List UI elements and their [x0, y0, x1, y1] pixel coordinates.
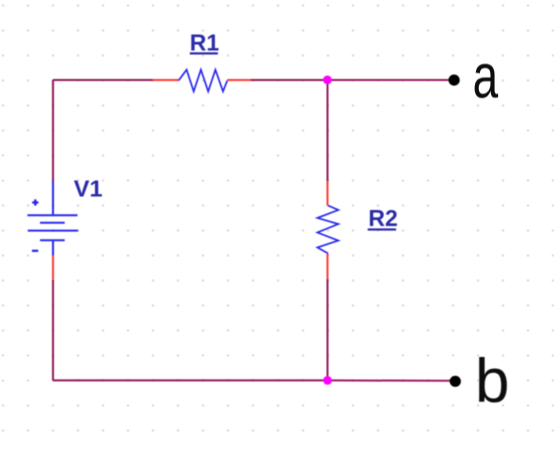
wire R2 bottom feed	[327, 279, 329, 381]
terminal b label	[475, 347, 509, 416]
terminal a dot	[449, 75, 460, 86]
resistor R1	[153, 70, 251, 92]
wire R2 top feed	[327, 80, 329, 181]
junction node b (magenta)	[323, 376, 332, 385]
terminal b dot	[450, 376, 461, 387]
label V1	[74, 175, 103, 201]
junction node a (magenta)	[323, 76, 332, 85]
svg-text:b: b	[475, 347, 509, 416]
terminal a label	[473, 42, 499, 111]
wire junction to terminal a	[328, 79, 454, 81]
wire R1 to node a junction	[250, 79, 327, 81]
wire junction to terminal b	[328, 379, 456, 381]
label R2	[368, 205, 398, 231]
battery V1	[27, 181, 78, 280]
wire bottom rail	[53, 379, 328, 381]
wire left vertical lower (V1 - pin to bottom rail)	[52, 280, 54, 381]
label R1	[190, 30, 220, 56]
svg-text:R1: R1	[190, 30, 220, 56]
wire top-left horizontal (V1 top to R1)	[53, 79, 154, 81]
svg-text:R2: R2	[368, 205, 397, 231]
svg-text:a: a	[473, 42, 499, 111]
wire left vertical upper (to V1 + pin)	[52, 80, 54, 181]
svg-text:V1: V1	[74, 175, 103, 201]
resistor R2	[317, 181, 338, 279]
